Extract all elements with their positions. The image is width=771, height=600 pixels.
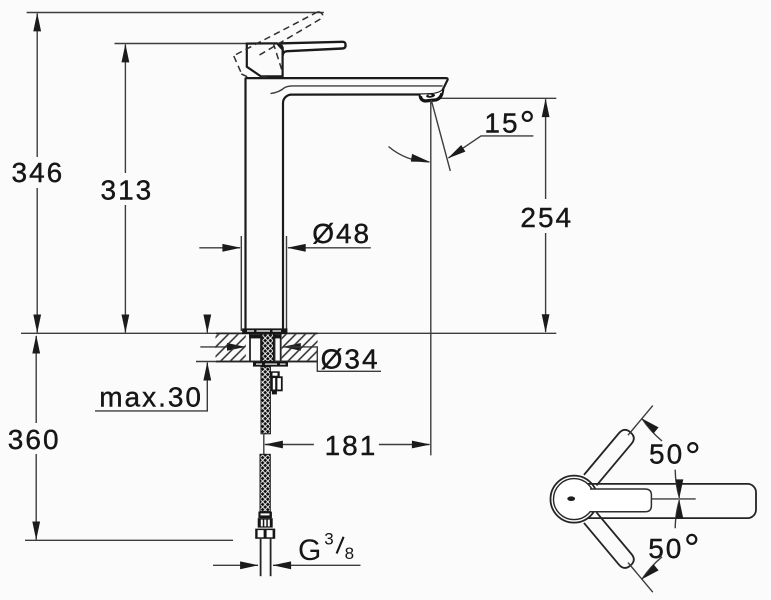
svg-text:max.30: max.30 [99,382,203,413]
top view body circle [551,476,598,523]
50 degree arc lower [675,500,679,528]
raised cover dashed left edge [234,56,242,73]
spout-outlet reference line (254 level) [440,97,556,99]
top view handle grip [588,484,756,518]
raised lever dashed line A [236,12,318,55]
50 degree extension line lower [628,563,653,593]
counter section top edge [216,332,318,334]
hose connection nut G3/8 [255,529,275,539]
svg-text:254: 254 [520,202,573,233]
top reference line (346 level) [27,12,324,14]
raised cover dashed bottom [241,74,249,78]
50 degree arc upper [675,470,679,498]
hose knurled section [258,518,273,527]
dimension 254 line [545,99,547,199]
raised cover dashed inner edge [273,43,283,73]
svg-text:360: 360 [8,424,61,455]
faucet body outline [246,78,448,329]
handle-top reference line (313 level) [115,43,248,45]
threaded shank [262,334,274,362]
svg-text:50: 50 [649,438,684,469]
svg-text:15: 15 [484,108,519,139]
svg-text:181: 181 [325,430,378,461]
dimension max.30 leader [95,363,207,411]
svg-text:50: 50 [648,533,683,564]
dimension 181 line [265,444,314,446]
15 degree slant line [431,100,450,171]
upper flexible hose braid [261,367,270,434]
top view handle axis line [651,498,695,500]
svg-text:Ø34: Ø34 [321,344,380,375]
dimension G3/8 line [213,564,258,566]
handle lever [279,42,346,56]
50 degree extension line upper [628,406,653,436]
svg-text:313: 313 [101,175,154,206]
aerator outlet [420,89,444,102]
water stream vertical line [430,101,432,456]
dimension 346 line [36,14,38,158]
top view lever arm inner [590,489,651,512]
second hose elbow fitting [270,371,279,377]
mounting nut [253,362,288,367]
countertop hatching left [216,334,246,360]
dimension D48 line [199,247,240,249]
counter section bottom edge [196,361,318,363]
dimension D48 extension line left [240,236,242,331]
svg-text:8: 8 [345,544,354,563]
spout inner highlight line [271,86,443,94]
connection tube [260,539,262,576]
swing arc [389,147,430,162]
hose crimp collar [258,512,272,519]
dimension 360 line [35,336,37,423]
dimension D34 line [200,346,244,348]
svg-text:3: 3 [324,530,333,549]
raised cover dashed bottom inner [261,76,270,77]
svg-text:G: G [298,534,321,567]
dimension 15 degree leader [449,136,534,158]
countertop hatching right [282,334,318,360]
raised lever dashed tip cap [318,12,323,18]
svg-text:346: 346 [12,157,65,188]
bottom reference line (360 level) [25,539,233,541]
handle cover [247,43,283,76]
base plate [243,329,287,334]
top view logo dot [567,496,575,501]
countertop reference line [21,332,556,334]
dimension D48 extension line right [286,236,288,331]
top view rotated handle up 50 [584,427,637,485]
svg-text:Ø48: Ø48 [312,218,371,249]
right hose tube in hole [274,334,276,361]
hose axis line at break [263,434,265,455]
left hose tube in hole [249,334,251,361]
raised lever dashed line B [260,18,323,55]
lower flexible hose braid [260,454,270,511]
dimension 313 line [124,45,126,174]
top view rotated handle down 50 [584,512,637,570]
